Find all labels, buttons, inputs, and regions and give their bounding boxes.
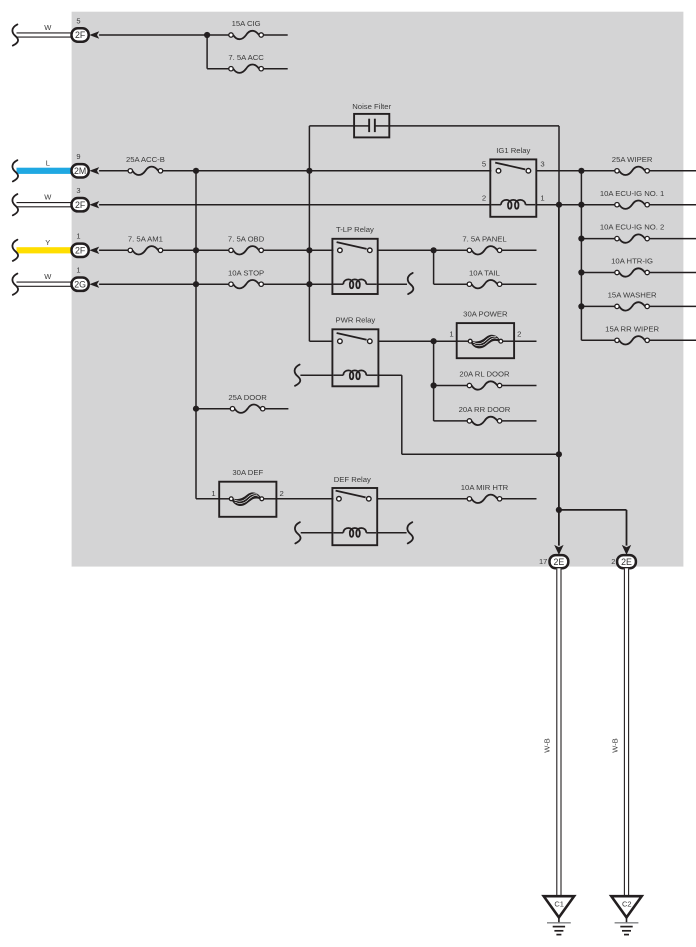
svg-text:30A DEF: 30A DEF [232,468,263,477]
fuse 10A STOP [233,280,259,288]
wire to 20A RL DOOR fuse [434,385,468,387]
connector 2E (pin 2) [617,555,636,568]
squiggle left of W wire [12,194,18,215]
background panel (junction block) [72,12,684,567]
wire after 25A DOOR [265,408,289,410]
svg-text:L: L [46,159,50,168]
node PANEL/TAIL branch [431,247,437,253]
arrow into 2M [89,167,99,174]
svg-text:W: W [44,23,52,32]
svg-text:25A WIPER: 25A WIPER [612,155,653,164]
fuse 15A WASHER [619,302,645,310]
wire OBD to T-LP relay [263,249,333,251]
wire after RL DOOR [502,385,537,387]
wire L (blue) into connector 2M pin 9 [17,168,72,174]
wire to 10A STOP fuse [99,283,229,285]
svg-text:7. 5A PANEL: 7. 5A PANEL [462,234,507,243]
wire after 25A WIPER [649,170,696,172]
wire to 25A ACC-B fuse [99,170,128,172]
squiggle left of DEF coil [295,522,301,543]
wire branch down to TAIL row [433,250,435,284]
wire: vertical from noise filter right to coil return row [558,126,560,205]
fuse 10A TAIL [472,280,498,288]
PWR relay coil [333,374,343,376]
wire bus to 25A WIPER fuse [581,170,615,172]
svg-text:C1: C1 [554,899,564,908]
wire after 7.5A ACC [263,68,288,70]
fuse 20A RR DOOR [472,417,498,425]
svg-text:30A POWER: 30A POWER [463,309,508,318]
squiggle left of PWR coil [295,365,301,386]
wire V1 into PWR switch [309,340,332,342]
wire after 10A ECU-IG NO. 1 [649,204,696,206]
wire noise filter left lead [309,125,355,127]
svg-text:2G: 2G [74,279,86,289]
svg-text:9: 9 [76,152,80,161]
arrow into 2F [89,201,99,208]
svg-text:10A STOP: 10A STOP [228,268,264,277]
node bus [578,168,584,174]
wire PWR coil to ground feed [378,374,401,376]
squiggle left of L wire [12,160,18,181]
svg-text:2F: 2F [75,30,86,40]
svg-text:17: 17 [539,557,547,566]
wire to 10A TAIL fuse [434,283,468,285]
wire main ground feed vertical [558,205,560,546]
wire to 30A POWER box [434,340,457,342]
fuse 15A RR WIPER [619,336,645,344]
wire after 15A CIG [263,34,288,36]
fuse 7.5A AM1 [133,246,159,254]
wire V0 into 30A DEF [196,498,219,500]
node on V1 [306,281,312,287]
svg-text:3: 3 [76,186,80,195]
ground C1 [544,896,574,917]
svg-text:2F: 2F [75,200,86,210]
wire: vertical feeder V1 [308,126,310,341]
wire AM1 to OBD [163,249,230,251]
wire after TAIL [502,283,537,285]
svg-text:T-LP Relay: T-LP Relay [336,225,374,234]
noise filter (capacitor) [354,114,389,137]
svg-text:7. 5A ACC: 7. 5A ACC [228,53,264,62]
svg-text:5: 5 [482,159,486,168]
wire to 7.5A AM1 fuse [99,249,128,251]
node on V0 [193,168,199,174]
arrow into 2E pin 17 [554,545,563,555]
wire PWR switch out to POWER junction [378,340,433,342]
arrow into 2F [89,247,99,254]
wire W into connector 2F pin 3 [17,202,72,207]
svg-text:PWR Relay: PWR Relay [336,316,376,325]
wire STOP to T-LP relay coil [263,283,333,285]
svg-text:2: 2 [279,489,283,498]
svg-text:20A RR DOOR: 20A RR DOOR [459,405,511,414]
wire branch down from POWER junction [433,341,435,421]
svg-text:15A RR WIPER: 15A RR WIPER [605,324,659,333]
node branch to 2E pin 2 [556,507,562,513]
fuse 20A RL DOOR [472,381,498,389]
node DOOR branch on V0 [193,406,199,412]
svg-text:1: 1 [449,329,453,338]
squiggle (wire continues) left of W wire [12,24,18,45]
wire [206,35,208,69]
arrow into 2G [89,281,99,288]
PWR relay switch [337,333,367,340]
svg-text:Y: Y [45,238,50,247]
fuse 15A CIG [233,31,259,39]
node on V0 [193,247,199,253]
wire IG1 pin3 to right bus [536,170,581,172]
DEF relay coil [333,532,343,534]
wire to 7.5A ACC fuse [207,68,229,70]
svg-text:3: 3 [540,159,544,168]
svg-text:IG1 Relay: IG1 Relay [496,146,530,155]
wire bus to 10A HTR-IG fuse [581,272,615,274]
svg-text:15A WASHER: 15A WASHER [608,291,657,300]
wire bus to 15A WASHER fuse [581,305,615,307]
wire DEF relay to 10A MIR HTR [377,498,467,500]
svg-text:10A ECU-IG NO. 1: 10A ECU-IG NO. 1 [600,189,665,198]
ground C2 [611,896,641,917]
fuse 10A HTR-IG [619,268,645,276]
node on V1 [306,247,312,253]
svg-text:20A RL DOOR: 20A RL DOOR [459,370,510,379]
fuse 7.5A OBD [233,246,259,254]
wire after PANEL [502,249,537,251]
node on V1 [306,168,312,174]
wire 30A DEF to DEF relay [276,498,333,500]
node bus [578,303,584,309]
svg-text:15A CIG: 15A CIG [232,19,261,28]
svg-text:2E: 2E [554,557,565,567]
wire noise filter right lead [388,125,559,127]
wire squiggle to DEF coil [301,532,333,534]
connector 2F [72,244,89,257]
svg-text:W-B: W-B [610,738,619,752]
svg-text:W: W [44,193,52,202]
wire to 15A CIG fuse [207,34,229,36]
wire W into connector 2G pin 1 [17,282,72,287]
wire IG1 pin1 to ground feed [536,204,581,206]
fuse 7.5A ACC [233,65,259,73]
wire after 10A ECU-IG NO. 2 [649,238,696,240]
svg-text:7. 5A AM1: 7. 5A AM1 [128,234,163,243]
wire bus to 10A ECU-IG NO. 2 fuse [581,238,615,240]
wire T-LP switch out to PANEL junction [378,249,434,251]
connector 2G [72,278,89,291]
wire row to IG1 relay coil [99,204,491,206]
wire T-LP coil out [378,283,407,285]
svg-text:DEF Relay: DEF Relay [334,475,371,484]
svg-text:W-B: W-B [543,738,552,752]
fuse 25A WIPER [619,167,645,175]
svg-text:2E: 2E [621,557,632,567]
svg-text:C2: C2 [622,899,632,908]
IG1 relay switch contacts (pins 5-3) [495,163,525,170]
svg-text:Noise Filter: Noise Filter [352,102,391,111]
wire to 7.5A PANEL fuse [434,249,468,251]
svg-text:7. 5A OBD: 7. 5A OBD [228,234,265,243]
wire after 15A RR WIPER [649,339,696,341]
wire after 10A HTR-IG [649,272,696,274]
fuse 10A MIR HTR [472,495,498,503]
node RL DOOR [431,382,437,388]
wire squiggle to PWR coil [300,374,332,376]
connector 2F [72,28,89,41]
wire ACC-B row to IG1 relay [163,170,492,172]
wire bus to 10A ECU-IG NO. 1 fuse [581,204,615,206]
fuse 25A DOOR [235,405,261,413]
svg-text:25A DOOR: 25A DOOR [228,393,267,402]
fuse 10A ECU-IG NO. 1 [619,201,645,209]
squiggle left of W wire [12,274,18,295]
squiggle left of Y wire [12,240,18,261]
T-LP relay coil [333,283,343,285]
wire W-B to ground C1 [556,568,561,896]
svg-text:10A HTR-IG: 10A HTR-IG [611,257,653,266]
wire DEF coil to squiggle [377,532,406,534]
wire after MIR HTR [502,498,537,500]
wire after RR DOOR [502,420,537,422]
svg-text:10A ECU-IG NO. 2: 10A ECU-IG NO. 2 [600,223,665,232]
squiggle after T-LP coil [408,273,414,294]
DEF relay switch [336,491,366,498]
connector 2F [72,198,89,211]
node ground feed [556,451,562,457]
wire to 20A RR DOOR fuse [434,420,468,422]
svg-text:25A ACC-B: 25A ACC-B [126,155,165,164]
wire Y (yellow) into connector 2F pin 1 [17,247,72,253]
arrow into 2E pin 2 [622,545,631,555]
svg-text:1: 1 [76,232,80,241]
IG1 relay coil (pins 2-1) [491,204,501,206]
svg-text:2: 2 [517,329,521,338]
node ground feed top [556,202,562,208]
wire W-B to ground C2 [624,568,629,896]
svg-text:2: 2 [482,193,486,202]
wire after 15A WASHER [649,305,696,307]
connector 2M [72,164,89,177]
svg-text:5: 5 [76,16,80,25]
svg-text:1: 1 [76,266,80,275]
node: CIG/ACC branch [204,32,210,38]
svg-text:W: W [44,272,52,281]
arrow into 2F [89,31,99,38]
svg-text:2: 2 [611,557,615,566]
fuse 7.5A PANEL [472,246,498,254]
connector 2E (pin 17) [550,555,569,568]
wire bus to 15A RR WIPER fuse [581,339,615,341]
svg-text:2M: 2M [74,166,86,176]
wire from arrow to CIG junction [99,34,207,36]
T-LP relay switch [337,242,367,249]
node on V0 [193,281,199,287]
wire after 30A POWER [514,340,536,342]
svg-text:1: 1 [540,193,544,202]
svg-text:2F: 2F [75,245,86,255]
wire: right distribution bus [580,171,582,340]
wire W into connector 2F pin 5 [17,32,72,37]
wire: vertical feeder V0 [195,171,197,499]
svg-text:10A TAIL: 10A TAIL [469,268,501,277]
node bus [578,202,584,208]
wire branch to second ground [559,509,627,511]
node bus [578,236,584,242]
squiggle right of DEF coil [407,522,413,543]
svg-text:10A MIR HTR: 10A MIR HTR [461,483,509,492]
fuse 10A ECU-IG NO. 2 [619,234,645,242]
fuse 25A ACC-B [133,167,159,175]
svg-text:1: 1 [211,489,215,498]
wire to 25A DOOR fuse [196,408,231,410]
node POWER branch [431,338,437,344]
node bus [578,269,584,275]
